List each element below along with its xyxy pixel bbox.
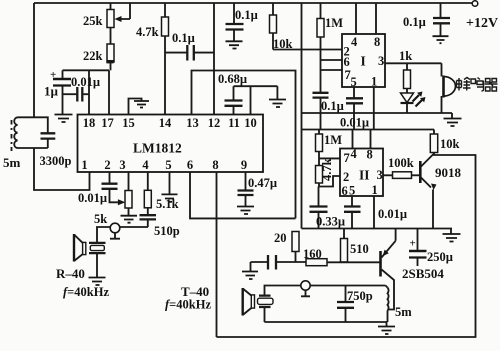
svg-text:17: 17	[101, 116, 114, 130]
svg-text:14: 14	[159, 116, 172, 130]
svg-text:3: 3	[119, 158, 125, 172]
svg-text:4: 4	[351, 147, 358, 161]
svg-text:9018: 9018	[435, 165, 462, 180]
svg-text:10k: 10k	[440, 137, 460, 151]
svg-text:1k: 1k	[399, 49, 412, 63]
svg-text:0.01µ: 0.01µ	[378, 207, 407, 221]
svg-text:1µ: 1µ	[44, 84, 59, 99]
svg-text:12: 12	[208, 116, 221, 130]
svg-text:0.1µ: 0.1µ	[172, 31, 195, 45]
svg-text:0.1µ: 0.1µ	[321, 99, 344, 113]
svg-text:0.1µ: 0.1µ	[235, 8, 258, 22]
svg-text:3: 3	[378, 54, 384, 68]
svg-text:3: 3	[377, 168, 383, 182]
svg-text:4.7k: 4.7k	[136, 25, 159, 39]
svg-text:6: 6	[344, 55, 350, 69]
svg-text:250µ: 250µ	[427, 250, 453, 264]
svg-text:2SB504: 2SB504	[402, 266, 444, 281]
svg-text:I: I	[361, 54, 366, 69]
svg-text:f=40kHz: f=40kHz	[63, 285, 109, 299]
svg-text:13: 13	[186, 116, 199, 130]
svg-text:II: II	[359, 168, 370, 183]
svg-text:10: 10	[244, 116, 257, 130]
svg-text:+: +	[50, 69, 56, 81]
svg-text:1: 1	[371, 75, 377, 89]
svg-text:0.01µ: 0.01µ	[78, 191, 107, 205]
svg-text:+12V: +12V	[466, 16, 498, 31]
svg-text:9: 9	[241, 158, 247, 172]
svg-text:7: 7	[344, 151, 350, 165]
svg-text:1: 1	[372, 183, 378, 197]
svg-text:1M: 1M	[325, 16, 343, 30]
svg-text:160: 160	[303, 247, 322, 261]
svg-text:2: 2	[343, 170, 349, 184]
svg-text:15: 15	[122, 116, 135, 130]
svg-text:LM1812: LM1812	[133, 141, 182, 156]
svg-text:0.01µ: 0.01µ	[340, 116, 369, 130]
svg-text:8: 8	[212, 158, 218, 172]
svg-text:f=40kHz: f=40kHz	[165, 298, 211, 312]
svg-text:0.1µ: 0.1µ	[403, 15, 426, 29]
svg-text:5k: 5k	[94, 212, 107, 226]
svg-text:5m: 5m	[395, 305, 412, 319]
svg-text:6: 6	[342, 184, 348, 198]
svg-text:750p: 750p	[347, 289, 373, 303]
svg-text:0.47µ: 0.47µ	[248, 176, 277, 190]
svg-text:6: 6	[187, 158, 193, 172]
svg-text:3300p: 3300p	[40, 154, 72, 168]
svg-text:4: 4	[351, 35, 358, 49]
svg-text:8: 8	[374, 35, 380, 49]
svg-text:18: 18	[83, 116, 96, 130]
svg-text:510: 510	[350, 242, 369, 256]
svg-text:510p: 510p	[154, 224, 180, 238]
svg-text:4.7k: 4.7k	[320, 158, 334, 181]
svg-text:5: 5	[349, 184, 355, 198]
svg-text:R–40: R–40	[56, 266, 85, 281]
svg-text:22k: 22k	[83, 49, 103, 63]
svg-text:5: 5	[165, 158, 171, 172]
svg-text:5: 5	[351, 75, 357, 89]
svg-text:+: +	[410, 238, 416, 250]
svg-text:0.68µ: 0.68µ	[218, 72, 247, 86]
svg-text:1M: 1M	[324, 133, 342, 147]
svg-text:20: 20	[274, 231, 287, 245]
svg-text:0.01µ: 0.01µ	[71, 75, 100, 89]
svg-text:25k: 25k	[83, 14, 103, 28]
svg-text:100k: 100k	[388, 156, 414, 170]
svg-text:11: 11	[228, 116, 240, 130]
svg-text:5m: 5m	[3, 155, 21, 170]
svg-text:8: 8	[367, 148, 373, 162]
svg-text:2: 2	[104, 158, 110, 172]
svg-text:0.33µ: 0.33µ	[316, 215, 345, 229]
svg-text:4: 4	[142, 158, 149, 172]
svg-text:1: 1	[81, 158, 87, 172]
